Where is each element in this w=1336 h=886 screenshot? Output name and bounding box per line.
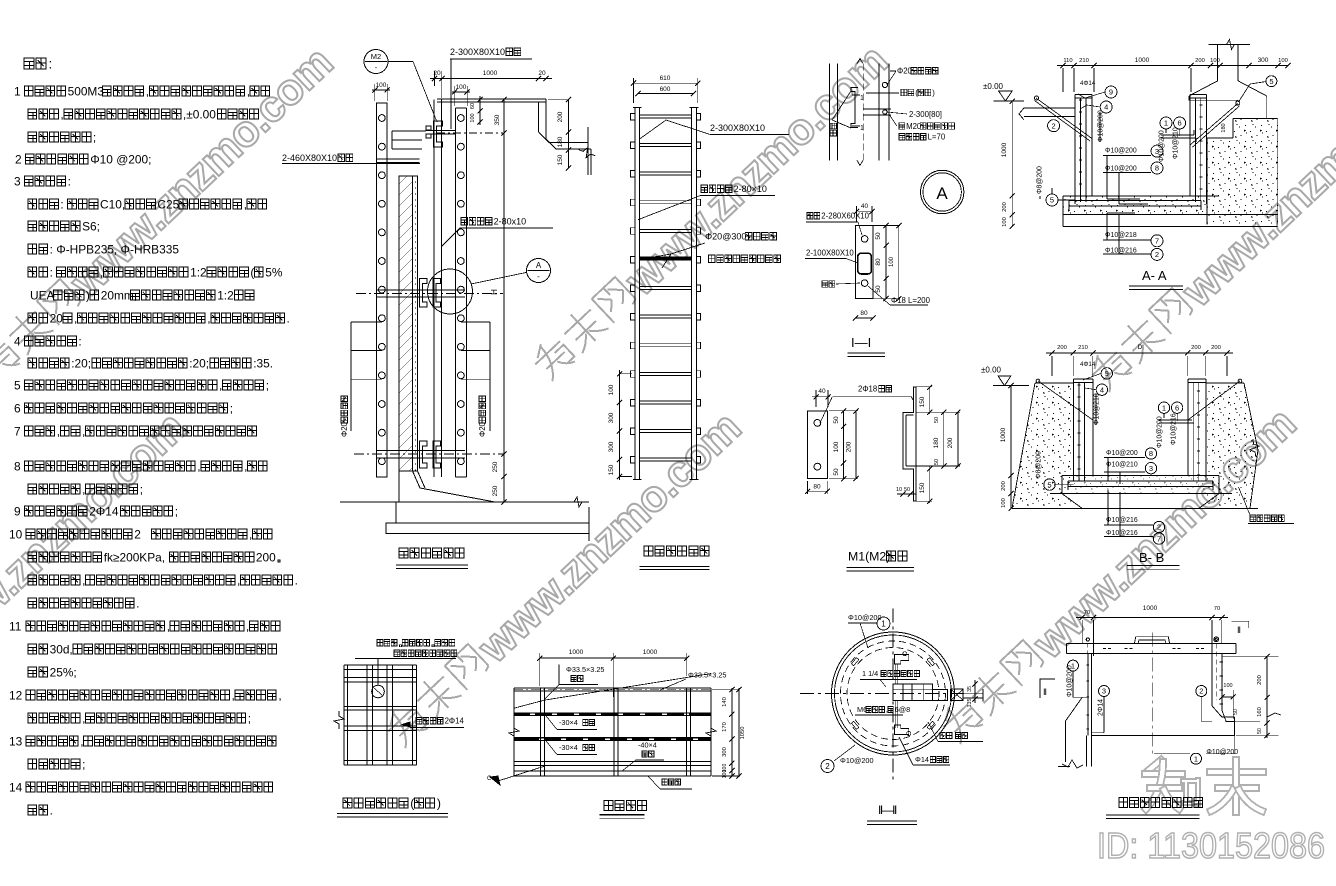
svg-text:250: 250: [492, 485, 499, 496]
svg-text:Φ10@200: Φ10@200: [848, 613, 882, 622]
manhole arrangement: [1076, 617, 1228, 619]
svg-text:8: 8: [1149, 449, 1153, 458]
svg-text:,: ,: [244, 459, 247, 473]
svg-text:Φ8@200: Φ8@200: [1036, 451, 1043, 479]
svg-text:2Φ14: 2Φ14: [1098, 699, 1105, 716]
svg-text:B- B: B- B: [1139, 550, 1164, 565]
svg-text:100: 100: [833, 441, 840, 452]
svg-text:Φ14: Φ14: [915, 755, 929, 764]
svg-text:25%;: 25%;: [50, 665, 77, 679]
svg-text:100: 100: [1002, 217, 1008, 227]
svg-text:4Φ14: 4Φ14: [1080, 361, 1096, 368]
svg-text:6@8: 6@8: [895, 705, 911, 714]
svg-text::35.: :35.: [253, 356, 273, 370]
svg-text:fk≥200KPa,: fk≥200KPa,: [104, 550, 165, 564]
section B-B: [1012, 383, 1073, 508]
svg-text:,: ,: [82, 711, 85, 725]
svg-text:S6;: S6;: [82, 219, 100, 233]
svg-text:200: 200: [947, 437, 954, 448]
svg-text:150: 150: [557, 154, 564, 165]
svg-text:8: 8: [14, 459, 21, 473]
A-A chimney: [1217, 44, 1219, 80]
svg-text:;: ;: [93, 130, 96, 144]
svg-text:2Φ18: 2Φ18: [858, 385, 877, 394]
svg-text:300: 300: [608, 441, 615, 452]
section A-A: [1207, 118, 1278, 224]
svg-text:M20: M20: [906, 122, 922, 131]
notes text block: [24, 58, 46, 69]
svg-text:50: 50: [1257, 728, 1263, 734]
svg-text:H: H: [490, 289, 499, 295]
svg-text::: :: [50, 265, 53, 279]
svg-text:.: .: [295, 573, 298, 587]
svg-text:-: -: [537, 272, 540, 281]
svg-text:II: II: [1237, 625, 1241, 635]
front view left dims: [619, 370, 621, 480]
svg-text:;: ;: [248, 711, 251, 725]
svg-text:): ): [437, 797, 441, 811]
svg-text:140: 140: [722, 697, 728, 707]
svg-text:II—II: II—II: [878, 803, 897, 817]
svg-text:50: 50: [875, 232, 882, 240]
svg-text:50: 50: [833, 468, 840, 476]
svg-text:2: 2: [15, 152, 22, 166]
svg-text:,: ,: [278, 688, 281, 702]
svg-text:,: ,: [60, 107, 63, 121]
svg-text:;: ;: [230, 401, 233, 415]
svg-text:80: 80: [813, 484, 821, 491]
svg-text:150: 150: [608, 464, 615, 475]
svg-text:80: 80: [875, 258, 882, 266]
svg-text:100: 100: [722, 770, 728, 779]
svg-text:.: .: [287, 311, 290, 325]
svg-text:1000: 1000: [1143, 605, 1158, 612]
svg-text:100: 100: [608, 384, 615, 395]
svg-text:350: 350: [494, 114, 501, 125]
svg-text:40: 40: [818, 388, 826, 395]
svg-text:A: A: [536, 261, 542, 270]
hole reinforcement elevation: [343, 665, 345, 765]
bottom rung and brackets: [419, 441, 427, 468]
svg-text:13: 13: [9, 734, 23, 748]
svg-text:L=70: L=70: [928, 133, 946, 142]
svg-text::20;: :20;: [189, 356, 209, 370]
svg-text:5: 5: [14, 378, 21, 392]
svg-text:200: 200: [1057, 345, 1067, 351]
svg-text:Φ10@216: Φ10@216: [1105, 247, 1137, 254]
svg-text:200: 200: [557, 111, 564, 122]
svg-text:200: 200: [1211, 345, 1221, 351]
svg-text:200: 200: [1002, 202, 1008, 212]
svg-text:50: 50: [934, 417, 940, 423]
svg-text:2: 2: [1052, 121, 1056, 130]
svg-text:Φ33.5×3.25: Φ33.5×3.25: [566, 665, 605, 674]
svg-text:2: 2: [134, 527, 141, 541]
svg-text:6: 6: [1175, 403, 1179, 412]
svg-text:4Φ14: 4Φ14: [1080, 80, 1096, 87]
svg-text:M2: M2: [371, 52, 381, 61]
svg-text:12: 12: [9, 688, 23, 702]
svg-text:1050: 1050: [740, 727, 746, 740]
svg-text:1: 1: [1194, 754, 1198, 763]
I-I section: [855, 226, 873, 299]
svg-text:Φ18 L=200: Φ18 L=200: [891, 296, 931, 305]
svg-text:;: ;: [175, 504, 178, 518]
anchor detail top: [829, 64, 831, 161]
svg-text:14: 14: [9, 780, 23, 794]
svg-text:30d,: 30d,: [50, 642, 73, 656]
svg-text:2-80×10: 2-80×10: [734, 184, 767, 194]
svg-text:3: 3: [1102, 687, 1106, 696]
svg-text:200: 200: [846, 441, 853, 452]
svg-text:Φ10@210: Φ10@210: [1173, 127, 1180, 159]
B-B top dims: [1046, 352, 1233, 354]
svg-text:1 1/4: 1 1/4: [862, 669, 878, 678]
svg-text:9: 9: [1105, 369, 1109, 378]
top bracket: [434, 121, 443, 147]
svg-text::20;: :20;: [71, 356, 91, 370]
svg-text:100: 100: [1001, 498, 1007, 508]
svg-text:Φ10 @200;: Φ10 @200;: [90, 152, 151, 166]
svg-text:,: ,: [82, 424, 85, 438]
title: manhole arrangement: [1119, 798, 1203, 808]
svg-text:,: ,: [207, 311, 210, 325]
svg-text:500M3: 500M3: [68, 84, 105, 98]
svg-text:9: 9: [1109, 88, 1113, 97]
svg-text:Φ10@200: Φ10@200: [1106, 450, 1138, 457]
svg-text:(: (: [250, 265, 254, 279]
top dim: [430, 78, 552, 80]
svg-text:100: 100: [1278, 58, 1288, 64]
svg-text:1: 1: [860, 95, 864, 102]
svg-text:Φ10@200: Φ10@200: [840, 756, 874, 765]
title: M1(M2): [887, 551, 907, 561]
svg-text:±0.00: ±0.00: [981, 366, 1002, 375]
svg-text:40: 40: [861, 203, 869, 210]
svg-text:,: ,: [232, 688, 235, 702]
svg-text:Φ10@200: Φ10@200: [1105, 165, 1137, 172]
svg-text:135: 135: [967, 699, 973, 708]
svg-text:100: 100: [470, 113, 476, 122]
svg-text:-30×4: -30×4: [559, 743, 578, 752]
title: hole reinf: [343, 798, 435, 808]
svg-text:Φ20: Φ20: [340, 421, 349, 437]
svg-text:7: 7: [14, 424, 21, 438]
svg-text:5: 5: [1047, 480, 1051, 489]
svg-text:11: 11: [9, 619, 22, 633]
svg-text:20mm,: 20mm,: [101, 288, 137, 302]
svg-text:180: 180: [557, 136, 564, 147]
svg-text:2Φ14: 2Φ14: [89, 504, 119, 518]
svg-text:150: 150: [919, 396, 926, 407]
svg-text::: :: [78, 334, 81, 348]
svg-text:D: D: [1138, 344, 1143, 351]
ladder side view: [377, 103, 388, 477]
svg-text:2: 2: [1199, 687, 1203, 696]
svg-text:1:2: 1:2: [217, 288, 234, 302]
svg-text:Φ33.5×3.25: Φ33.5×3.25: [688, 671, 727, 680]
svg-text:A: A: [936, 184, 948, 203]
svg-text:200: 200: [1257, 675, 1263, 685]
svg-text:210: 210: [1078, 345, 1088, 351]
svg-text:5: 5: [1269, 77, 1273, 86]
title: railing: [604, 801, 647, 811]
svg-text:Φ20@300: Φ20@300: [705, 232, 746, 242]
svg-text:Φ10@200: Φ10@200: [1206, 749, 1238, 756]
svg-text:3: 3: [14, 174, 21, 188]
left top step + plate 2-460X80X10: [392, 130, 426, 132]
II-II manhole detail: [832, 632, 955, 755]
svg-text::: :: [60, 197, 63, 211]
svg-text:70: 70: [1214, 606, 1220, 612]
svg-text:6: 6: [1178, 119, 1182, 128]
svg-text:Φ10@216: Φ10@216: [1106, 517, 1138, 524]
zhimo logo: [1149, 760, 1161, 770]
svg-text:1000: 1000: [1135, 57, 1150, 64]
svg-text:2: 2: [1157, 523, 1161, 532]
svg-text:2-280X60X10: 2-280X60X10: [821, 212, 869, 221]
svg-text:160: 160: [1257, 707, 1263, 717]
svg-text:,: ,: [167, 619, 170, 633]
svg-text:3: 3: [1149, 464, 1153, 473]
A-A top dims: [1057, 65, 1288, 67]
svg-text:-40×4: -40×4: [638, 741, 657, 750]
svg-text:20: 20: [50, 311, 64, 325]
svg-text:,: ,: [886, 705, 888, 714]
concrete wall hatch: [399, 176, 413, 471]
railing detail: [514, 687, 711, 689]
big detail bubble A: [921, 170, 964, 213]
svg-text:,: ,: [82, 573, 85, 587]
svg-text:50: 50: [934, 459, 940, 465]
svg-text:300: 300: [1258, 57, 1269, 64]
svg-text:;: ;: [82, 757, 85, 771]
svg-text:100: 100: [889, 256, 895, 267]
svg-text:Φ10@216: Φ10@216: [1171, 413, 1178, 445]
svg-text:-30×4: -30×4: [559, 718, 578, 727]
svg-text:1: 1: [881, 619, 886, 628]
latch assembly: [895, 655, 909, 665]
A-A rebar callouts: [1105, 86, 1117, 98]
svg-text::: :: [68, 174, 71, 188]
M1 Z profile: [903, 387, 916, 501]
svg-text:,: ,: [80, 734, 83, 748]
svg-text:100: 100: [376, 82, 387, 89]
svg-text:7: 7: [1155, 237, 1159, 246]
svg-text:50: 50: [904, 487, 910, 493]
title: front view: [644, 546, 709, 556]
M1(M2) plate: [808, 411, 828, 479]
svg-text:I—I: I—I: [851, 335, 871, 350]
svg-text:: Φ-HPB235, Φ-HRB335: : Φ-HPB235, Φ-HRB335: [50, 242, 180, 256]
svg-text:Φ10@200: Φ10@200: [1098, 110, 1105, 142]
svg-text:20: 20: [433, 70, 441, 77]
svg-text:1: 1: [1162, 403, 1166, 412]
svg-text:35: 35: [967, 686, 973, 692]
svg-text:,: ,: [197, 459, 200, 473]
svg-text:610: 610: [660, 75, 671, 82]
svg-text:,: ,: [146, 84, 149, 98]
ground line and footing: [340, 501, 589, 503]
svg-text:300: 300: [722, 747, 728, 757]
svg-text:Φ10@218: Φ10@218: [1105, 232, 1137, 239]
svg-text:2-80x10: 2-80x10: [494, 217, 527, 227]
svg-text:100: 100: [1223, 683, 1232, 689]
svg-text:200: 200: [1195, 58, 1205, 64]
svg-text:180: 180: [1221, 123, 1227, 132]
ladder front view: [634, 108, 636, 480]
svg-text:Φ8@200: Φ8@200: [1037, 166, 1044, 194]
svg-text:10: 10: [896, 487, 902, 493]
svg-text:600: 600: [660, 86, 671, 93]
svg-text:60: 60: [470, 103, 476, 109]
svg-text:2: 2: [1155, 250, 1159, 259]
svg-text:.: .: [136, 596, 139, 610]
top right wall step: [545, 99, 547, 139]
svg-text:,: ,: [100, 265, 103, 279]
svg-text:3: 3: [1155, 147, 1159, 156]
svg-text:9: 9: [14, 504, 21, 518]
svg-text:Φ20: Φ20: [478, 421, 487, 437]
svg-text:300: 300: [608, 412, 615, 423]
svg-text:2Φ14: 2Φ14: [445, 717, 465, 726]
svg-text:1000: 1000: [643, 649, 658, 656]
svg-text:;: ;: [140, 482, 143, 496]
svg-text:ID: 1130152086: ID: 1130152086: [1097, 825, 1325, 866]
detail circle A leader: [428, 269, 473, 314]
svg-text:110: 110: [1063, 58, 1072, 64]
svg-text:M6: M6: [857, 705, 867, 714]
svg-text:±0.00: ±0.00: [983, 82, 1004, 91]
svg-text:,±0.00: ,±0.00: [183, 107, 216, 121]
svg-text:6: 6: [14, 401, 21, 415]
svg-text:180: 180: [933, 437, 940, 448]
svg-text:2-300X80X10: 2-300X80X10: [450, 47, 505, 57]
A-A walls: [1074, 94, 1076, 204]
svg-text:,: ,: [74, 311, 77, 325]
svg-text:): ): [932, 88, 935, 97]
svg-text:4: 4: [1104, 103, 1108, 112]
svg-text:2-300[80]: 2-300[80]: [909, 110, 942, 119]
svg-text:70: 70: [1084, 610, 1090, 616]
svg-text:4: 4: [14, 334, 21, 348]
svg-text:M1(M2): M1(M2): [848, 550, 890, 564]
svg-text:200: 200: [1001, 481, 1007, 491]
svg-text::: :: [49, 57, 53, 72]
svg-text:Φ10@210: Φ10@210: [1106, 461, 1138, 468]
svg-text:50: 50: [833, 416, 840, 424]
svg-text:2: 2: [825, 762, 830, 771]
detail bubble M2: [364, 50, 388, 74]
svg-text:C10,: C10,: [100, 197, 125, 211]
svg-text:5: 5: [1050, 196, 1054, 205]
svg-text:50: 50: [1233, 709, 1239, 715]
phi20 labels: [351, 321, 382, 323]
svg-text:1:2: 1:2: [190, 265, 207, 279]
svg-text:(: (: [915, 88, 918, 97]
channel verticals: [433, 99, 435, 477]
title: side view: [399, 548, 464, 558]
svg-text:1000: 1000: [569, 649, 584, 656]
svg-text:20: 20: [538, 70, 546, 77]
svg-text:Φ10@200: Φ10@200: [1157, 416, 1164, 448]
II cut marks: [1232, 621, 1249, 628]
svg-text:C25: C25: [157, 197, 179, 211]
B-B callouts: [1101, 368, 1112, 379]
svg-text:1000: 1000: [1001, 142, 1008, 157]
svg-text:,: ,: [82, 482, 85, 496]
svg-text:,: ,: [246, 619, 249, 633]
label 扶梯钢板2-80x10: [461, 218, 492, 226]
svg-text:,: ,: [247, 84, 250, 98]
svg-text:,: ,: [249, 527, 252, 541]
svg-text:): ): [86, 288, 90, 302]
svg-text:C: C: [487, 776, 492, 782]
svg-text:200: 200: [1191, 345, 1201, 351]
svg-text:250: 250: [492, 461, 499, 472]
svg-text:,: ,: [57, 424, 60, 438]
label 2-300X80X10: [506, 48, 521, 56]
svg-text:150: 150: [919, 482, 926, 493]
svg-text:50: 50: [875, 285, 882, 293]
svg-text:.: .: [50, 803, 53, 817]
svg-text:1: 1: [1164, 119, 1168, 128]
svg-text:UEA: UEA: [30, 288, 55, 302]
svg-text:Φ10@200: Φ10@200: [1067, 665, 1074, 697]
svg-text:Φ10@200: Φ10@200: [1105, 147, 1137, 154]
svg-text:A- A: A- A: [1142, 268, 1167, 283]
svg-text:1000: 1000: [483, 70, 498, 77]
watermark chains: [0, 38, 342, 392]
svg-text:,: ,: [237, 573, 240, 587]
svg-text:;: ;: [266, 378, 269, 392]
svg-text:210: 210: [1079, 58, 1089, 64]
svg-text:2-100X80X10: 2-100X80X10: [806, 248, 854, 257]
svg-text:8: 8: [1155, 164, 1159, 173]
svg-text:1000: 1000: [1000, 427, 1007, 442]
mid rung and brackets: [419, 279, 427, 308]
svg-text:Φ10@210: Φ10@210: [1094, 393, 1101, 425]
svg-text:1: 1: [860, 125, 864, 132]
svg-text:100: 100: [456, 84, 467, 91]
bubble A small: [527, 259, 551, 283]
svg-text:2-460X80X10: 2-460X80X10: [282, 153, 337, 163]
svg-text:Φ10@216: Φ10@216: [1106, 530, 1138, 537]
svg-text:,: ,: [244, 197, 247, 211]
svg-text:1: 1: [14, 84, 21, 98]
svg-text:80: 80: [860, 310, 868, 317]
svg-text:7: 7: [1157, 534, 1161, 543]
tank top slab: [437, 98, 546, 100]
svg-text:200: 200: [256, 550, 276, 564]
svg-text:4: 4: [1100, 385, 1104, 394]
svg-text:5%: 5%: [265, 265, 283, 279]
svg-text:II: II: [1043, 687, 1047, 697]
svg-text:Φ20: Φ20: [897, 67, 913, 76]
svg-text:100: 100: [1210, 58, 1220, 64]
svg-text:10: 10: [9, 527, 23, 541]
svg-text:,: ,: [219, 378, 222, 392]
svg-text:170: 170: [722, 722, 728, 732]
svg-text:2-300X80X10: 2-300X80X10: [710, 123, 765, 133]
